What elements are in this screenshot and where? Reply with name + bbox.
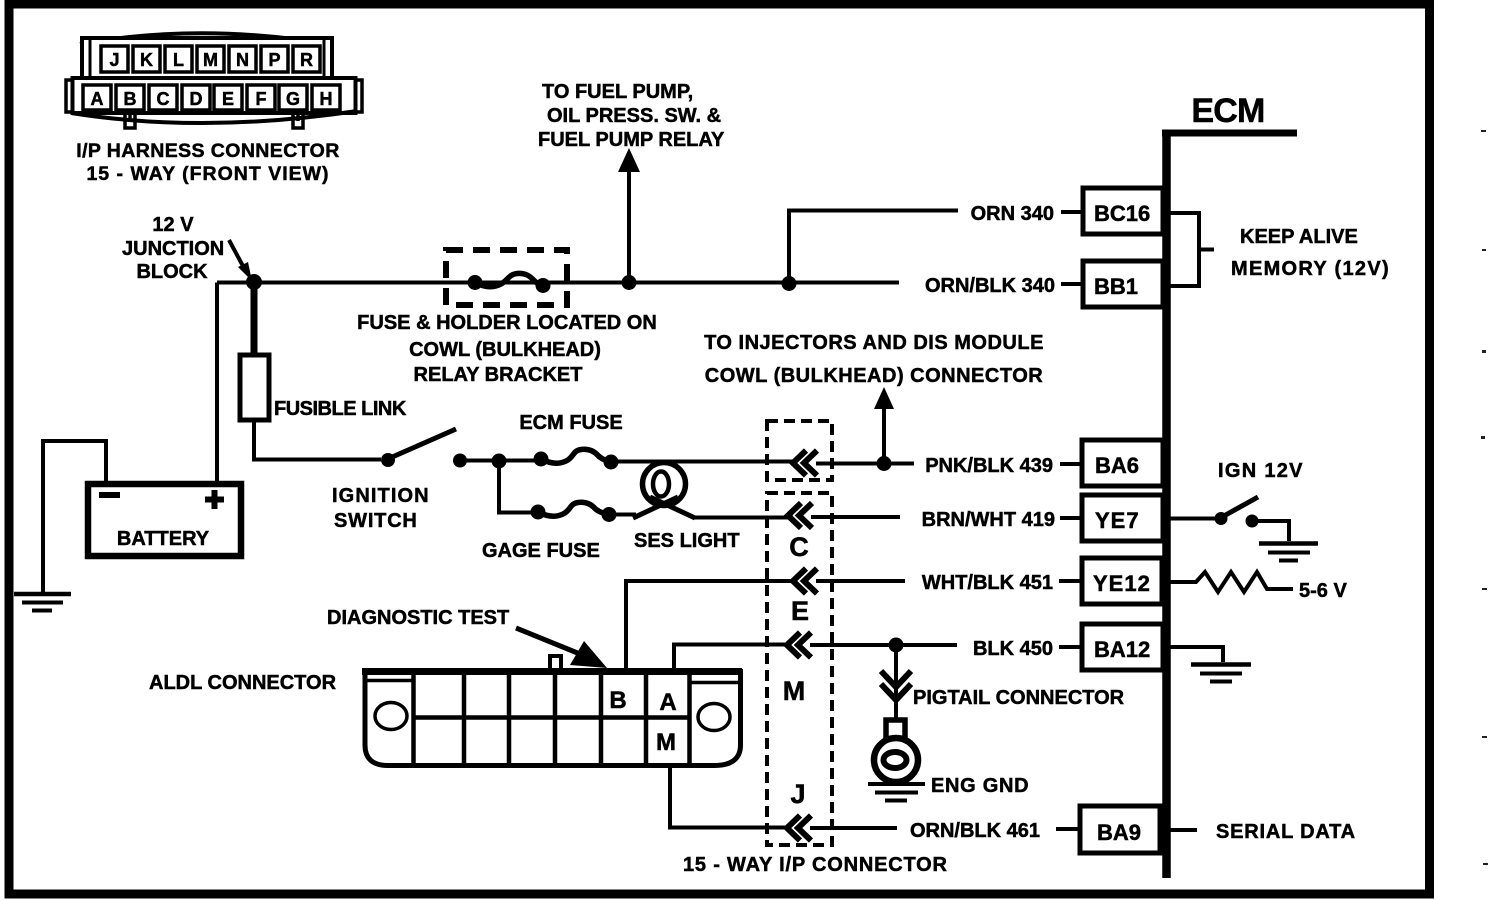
- svg-text:M: M: [203, 50, 218, 70]
- wire: junction to fusible link (thick): [251, 282, 258, 356]
- svg-text:BA12: BA12: [1094, 637, 1150, 662]
- svg-text:15 - WAY I/P CONNECTOR: 15 - WAY I/P CONNECTOR: [683, 854, 948, 876]
- node: gage fuse branch: [492, 454, 507, 469]
- svg-text:G: G: [286, 89, 300, 109]
- svg-text:DIAGNOSTIC TEST: DIAGNOSTIC TEST: [327, 607, 509, 629]
- wire: ORN 340 branch: [789, 211, 958, 284]
- svg-text:K: K: [140, 50, 153, 70]
- ground: battery: [14, 592, 71, 597]
- pin box BA9: [1080, 806, 1160, 853]
- wire: chevron to PNK/BLK label: [816, 462, 914, 466]
- svg-text:ENG GND: ENG GND: [931, 775, 1029, 797]
- scan artifact ticks right margin: [1481, 130, 1488, 865]
- mounting tab left: [125, 114, 135, 128]
- pin box YE7: [1082, 495, 1163, 541]
- connector bottom arc: [71, 111, 357, 123]
- node: pigtail tap: [889, 638, 904, 653]
- fusible link: [240, 355, 269, 420]
- ground: eng gnd: [868, 784, 925, 801]
- wire: ALDL pin M to chevron J: [670, 764, 787, 828]
- chevron: WHT/BLK 451 pin E: [793, 569, 817, 594]
- svg-text:BLK 450: BLK 450: [973, 638, 1053, 660]
- wire: fusible link to ignition switch: [254, 420, 381, 460]
- pin J: [101, 46, 128, 72]
- ECM module boundary line: [1162, 130, 1297, 137]
- svg-text:ECM: ECM: [1191, 92, 1264, 130]
- keep alive memory bracket: [1166, 213, 1214, 286]
- svg-text:ALDL CONNECTOR: ALDL CONNECTOR: [149, 672, 337, 694]
- dashed box: fuse holder: [446, 250, 567, 305]
- wire: BLK 450 to ALDL pin A: [674, 645, 787, 674]
- wire: SES light to chevron BRN/WHT: [693, 516, 793, 520]
- svg-text:BC16: BC16: [1094, 201, 1150, 226]
- svg-text:P: P: [268, 50, 280, 70]
- svg-text:12 V: 12 V: [152, 214, 194, 236]
- svg-text:BLOCK: BLOCK: [136, 261, 208, 283]
- wire: WHT/BLK 451 to ALDL pin B: [626, 581, 793, 673]
- eng gnd ring terminal: [886, 720, 905, 741]
- wire: battery positive feed: [215, 283, 219, 485]
- chevron: BLK 450 pin M: [787, 633, 811, 658]
- svg-text:TO FUEL PUMP,: TO FUEL PUMP,: [542, 81, 693, 103]
- pin box BC16: [1083, 188, 1163, 234]
- pin G: [279, 85, 307, 110]
- svg-text:RELAY BRACKET: RELAY BRACKET: [414, 364, 583, 386]
- svg-text:OIL PRESS. SW. &: OIL PRESS. SW. &: [547, 105, 721, 127]
- pin box BB1: [1083, 261, 1163, 307]
- pin N: [229, 46, 256, 72]
- ALDL mounting hole right: [698, 704, 730, 731]
- svg-text:M: M: [783, 676, 806, 706]
- svg-text:FUSE & HOLDER LOCATED ON: FUSE & HOLDER LOCATED ON: [357, 312, 657, 334]
- SES light: [609, 513, 636, 517]
- mounting tab right: [293, 114, 303, 128]
- pin M: [197, 46, 224, 72]
- svg-text:E: E: [222, 89, 234, 109]
- pin F: [247, 85, 275, 110]
- svg-text:BRN/WHT 419: BRN/WHT 419: [922, 509, 1055, 531]
- svg-text:N: N: [236, 50, 249, 70]
- gage fuse: [531, 505, 546, 520]
- node: fuel pump tap: [622, 275, 637, 290]
- pin H: [312, 85, 340, 110]
- svg-text:WHT/BLK 451: WHT/BLK 451: [922, 572, 1053, 594]
- svg-text:J: J: [109, 50, 119, 70]
- chevron: PNK/BLK 439: [793, 451, 817, 476]
- connector top arc: [80, 33, 333, 45]
- svg-text:C: C: [157, 89, 170, 109]
- svg-text:H: H: [320, 89, 333, 109]
- svg-text:MEMORY (12V): MEMORY (12V): [1231, 258, 1390, 280]
- svg-text:F: F: [256, 89, 267, 109]
- svg-text:FUSIBLE LINK: FUSIBLE LINK: [274, 398, 407, 420]
- ALDL end tab lines: [367, 681, 738, 683]
- svg-text:SWITCH: SWITCH: [334, 510, 418, 532]
- pin L: [165, 46, 192, 72]
- wire arrow: to injectors: [882, 406, 886, 463]
- diagnostic test arrow: [516, 628, 580, 654]
- chevron: ORN/BLK 461 pin J: [787, 816, 811, 841]
- svg-text:FUEL PUMP RELAY: FUEL PUMP RELAY: [538, 129, 725, 151]
- connector lower shell: [73, 78, 356, 113]
- svg-text:YE7: YE7: [1095, 508, 1140, 533]
- svg-text:L: L: [173, 50, 184, 70]
- svg-text:5-6 V: 5-6 V: [1299, 580, 1347, 602]
- wire: ecm fuse to chevron C: [611, 460, 793, 464]
- svg-text:IGNITION: IGNITION: [332, 485, 430, 507]
- svg-text:ORN 340: ORN 340: [971, 203, 1054, 225]
- svg-text:R: R: [300, 50, 313, 70]
- svg-text:E: E: [791, 596, 809, 626]
- ignition switch: [381, 453, 395, 467]
- svg-text:J: J: [790, 779, 805, 809]
- resistor at YE12 (5-6V): [1166, 572, 1293, 592]
- pin P: [261, 46, 288, 72]
- ALDL grid: [413, 674, 690, 763]
- svg-text:KEEP ALIVE: KEEP ALIVE: [1240, 226, 1358, 248]
- svg-text:15 - WAY (FRONT VIEW): 15 - WAY (FRONT VIEW): [86, 163, 329, 185]
- svg-text:ORN/BLK 461: ORN/BLK 461: [910, 820, 1040, 842]
- wire: pigtail drop: [894, 645, 898, 722]
- svg-text:BATTERY: BATTERY: [117, 528, 210, 550]
- battery: [88, 484, 241, 556]
- ign switch at YE7: [1166, 517, 1216, 521]
- ALDL mounting hole left: [375, 703, 407, 730]
- svg-text:A: A: [91, 89, 104, 109]
- pin box BA12: [1082, 624, 1163, 670]
- svg-text:COWL (BULKHEAD) CONNECTOR: COWL (BULKHEAD) CONNECTOR: [705, 365, 1043, 387]
- svg-text:I/P HARNESS CONNECTOR: I/P HARNESS CONNECTOR: [76, 140, 339, 162]
- chevron: pigtail connector (down): [881, 671, 911, 700]
- node: injector tap: [877, 456, 892, 471]
- dashed box: 15-way connector lower: [767, 493, 832, 845]
- svg-text:ECM FUSE: ECM FUSE: [519, 412, 622, 434]
- pin E: [214, 85, 242, 110]
- svg-text:BA6: BA6: [1095, 453, 1139, 478]
- svg-text:BA9: BA9: [1097, 820, 1141, 845]
- pin D: [182, 85, 210, 110]
- ALDL connector body: [365, 672, 741, 766]
- svg-text:A: A: [659, 689, 676, 716]
- wire: main 12V bus: [217, 281, 899, 285]
- pin C: [149, 85, 177, 110]
- wire arrow: to fuel pump: [627, 166, 631, 282]
- pin A: [83, 85, 111, 110]
- dashed box: 15-way connector upper: [767, 421, 832, 480]
- svg-text:TO INJECTORS AND DIS MODULE: TO INJECTORS AND DIS MODULE: [704, 332, 1044, 354]
- svg-text:IGN 12V: IGN 12V: [1218, 460, 1304, 482]
- svg-text:JUNCTION: JUNCTION: [122, 238, 224, 260]
- svg-text:B: B: [124, 89, 137, 109]
- pin box BA6: [1082, 440, 1163, 486]
- svg-text:SES LIGHT: SES LIGHT: [634, 530, 740, 552]
- chevron: BRN/WHT 419 pin C: [788, 503, 812, 528]
- svg-text:YE12: YE12: [1093, 571, 1151, 596]
- svg-text:PNK/BLK 439: PNK/BLK 439: [925, 455, 1053, 477]
- svg-text:B: B: [609, 687, 626, 714]
- node: ORN 340 tap: [782, 276, 797, 291]
- wire: battery negative to ground: [43, 441, 106, 594]
- ground at BA12: [1166, 647, 1223, 662]
- pin K: [133, 46, 160, 72]
- fuse F1 in dashed holder: [468, 275, 483, 290]
- ecm fuse: [534, 452, 549, 467]
- ground at ign switch: [1259, 541, 1318, 546]
- svg-text:D: D: [190, 89, 203, 109]
- pin B: [116, 85, 144, 110]
- svg-text:BB1: BB1: [1094, 274, 1138, 299]
- svg-text:COWL (BULKHEAD): COWL (BULKHEAD): [409, 339, 601, 361]
- serial data stub: [1166, 828, 1197, 832]
- pin R: [293, 46, 320, 72]
- node: 12V junction block: [246, 274, 262, 290]
- svg-text:ORN/BLK 340: ORN/BLK 340: [925, 275, 1055, 297]
- svg-text:M: M: [656, 729, 676, 756]
- pin box YE12: [1082, 558, 1162, 604]
- svg-text:SERIAL DATA: SERIAL DATA: [1216, 821, 1356, 843]
- I/P harness connector 15-way: [66, 33, 362, 128]
- svg-text:GAGE FUSE: GAGE FUSE: [482, 540, 600, 562]
- svg-text:C: C: [789, 532, 809, 562]
- ALDL key tab: [550, 656, 561, 671]
- svg-text:PIGTAIL CONNECTOR: PIGTAIL CONNECTOR: [913, 687, 1125, 709]
- connector upper shell: [82, 38, 332, 78]
